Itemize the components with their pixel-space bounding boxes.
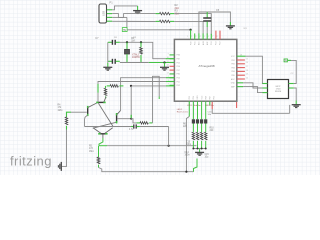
resistor R5: [97, 146, 100, 168]
label R4: [58, 105, 63, 112]
crystal Y1: [124, 42, 129, 62]
svg-text:2: 2: [191, 36, 192, 38]
IC bottom pin labels: [189, 95, 216, 100]
svg-text:6: 6: [208, 36, 209, 38]
pin numbers left column: [167, 53, 169, 85]
regulator right pins: [289, 84, 294, 89]
svg-text:PC2: PC2: [220, 42, 222, 46]
svg-text:5V: 5V: [284, 61, 287, 63]
resistor R7: [107, 85, 124, 88]
svg-text:28: 28: [240, 54, 242, 56]
IC right pins: [237, 56, 246, 86]
pin numbers top row: [187, 36, 217, 38]
wire r9 right arch: [153, 76, 160, 123]
wire D+ to IC top: [174, 21, 203, 34]
svg-text:PD7: PD7: [177, 70, 181, 72]
svg-text:19: 19: [246, 74, 248, 76]
svg-text:GND: GND: [231, 83, 236, 85]
svg-text:PB3: PB3: [231, 67, 234, 69]
label LED2: [177, 109, 188, 114]
svg-text:3: 3: [195, 36, 196, 38]
diagonal cross 2: [93, 122, 116, 128]
wire D- jog to R2: [112, 14, 155, 18]
ground GND2 stem: [229, 22, 231, 26]
wire xtal top green to IC: [166, 58, 175, 60]
capacitor C1: [108, 40, 120, 45]
wire pin3 to net: [112, 16, 127, 18]
IC bottom pin red: [211, 102, 213, 109]
ground GND2: [226, 26, 235, 29]
junction dot x168: [168, 145, 170, 147]
label R5: [89, 146, 94, 153]
junction dot: [189, 29, 191, 31]
svg-text:C14: C14: [185, 152, 190, 154]
svg-text:PD6: PD6: [177, 66, 181, 68]
svg-text:3: 3: [168, 80, 169, 82]
svg-text:1MΩ: 1MΩ: [89, 150, 94, 153]
pin 3: [107, 16, 112, 18]
capacitor C11 inline: [131, 124, 140, 128]
resistor R2: [156, 12, 175, 15]
wire net to IC: [127, 29, 191, 31]
svg-text:PC5: PC5: [194, 42, 196, 46]
transistor Q2: [117, 110, 121, 123]
svg-text:1M: 1M: [131, 39, 134, 42]
ground GND7 rotated: [58, 162, 61, 171]
wire xtal bottom green: [149, 62, 175, 64]
ground GND6: [195, 152, 204, 155]
pin 2: [107, 13, 112, 15]
led column 1: [192, 101, 195, 148]
led column 2: [196, 101, 199, 148]
svg-text:4: 4: [200, 36, 201, 38]
wire gnd left run: [62, 165, 67, 167]
net label box: [122, 28, 127, 32]
resistor R8 vertical: [104, 86, 107, 98]
wire pd2 to R7: [131, 85, 166, 87]
svg-text:18: 18: [246, 70, 248, 72]
junction dot crystal: [126, 41, 128, 43]
regulator U2 body: [268, 80, 289, 99]
svg-text:C15: C15: [205, 154, 210, 156]
svg-text:PB0: PB0: [177, 74, 180, 76]
join bar dots: [192, 148, 206, 150]
led column 3: [200, 101, 203, 148]
svg-text:15: 15: [246, 58, 248, 60]
wire ground drop: [137, 6, 139, 10]
IC top pins red: [216, 31, 220, 40]
ground GND5: [292, 105, 301, 108]
transistor Q3: [93, 128, 113, 138]
label R10: [210, 127, 215, 132]
transistor Q1: [96, 97, 106, 103]
resistor R9 horizontal: [136, 122, 152, 125]
junction dot R1: [140, 41, 142, 43]
pin 1: [107, 9, 112, 11]
svg-text:16MHz: 16MHz: [132, 56, 141, 59]
ground GND3: [103, 67, 112, 70]
wire R4 down: [66, 130, 68, 167]
wire q1 collector up: [97, 93, 99, 102]
svg-text:PB1: PB1: [231, 60, 234, 62]
svg-text:Red 5.1mm: Red 5.1mm: [177, 112, 188, 114]
junction dot gnd4: [163, 61, 165, 63]
wire gnd right: [243, 83, 267, 88]
svg-text:PB7: PB7: [177, 59, 180, 61]
wire 5v to reg: [291, 60, 296, 83]
svg-text:PD5: PD5: [214, 96, 216, 100]
wire Q4 emitter to y126: [85, 115, 88, 127]
resistor R3: [156, 20, 175, 23]
svg-text:PB2: PB2: [231, 64, 234, 66]
ground GND6 stem: [199, 149, 201, 153]
svg-text:7: 7: [212, 36, 213, 38]
wire q2 base right: [117, 118, 131, 120]
svg-text:13: 13: [167, 69, 169, 71]
IC left pin labels: [177, 55, 181, 87]
wire avcc top: [199, 12, 231, 35]
transistor Q4: [88, 103, 98, 117]
wire pd1 green end: [97, 84, 99, 93]
svg-text:3302E: 3302E: [275, 91, 282, 93]
svg-text:10: 10: [167, 57, 169, 59]
svg-text:1: 1: [187, 36, 188, 38]
svg-text:PC3: PC3: [216, 42, 218, 46]
green pin q2base net: [130, 115, 132, 118]
svg-text:PB7: PB7: [210, 96, 212, 99]
wire vbus to ground: [112, 6, 137, 10]
label C15: [205, 154, 210, 159]
svg-text:PB5: PB5: [231, 75, 234, 77]
svg-text:26: 26: [246, 77, 248, 79]
led column 4: [204, 101, 207, 148]
svg-text:fritzing: fritzing: [10, 154, 52, 169]
IC bottom pins: [189, 101, 210, 105]
wire q3 right long: [99, 145, 107, 147]
wire vcc right: [246, 56, 268, 83]
net label 5V: [284, 59, 291, 63]
svg-text:PD3: PD3: [189, 96, 191, 100]
led join bar: [193, 148, 205, 150]
svg-text:5V: 5V: [123, 29, 126, 32]
svg-text:PC6: PC6: [190, 42, 192, 46]
ground GND5 stem: [295, 101, 297, 105]
svg-text:9: 9: [168, 53, 169, 55]
resistor R1: [140, 42, 143, 62]
svg-text:PC4: PC4: [211, 42, 213, 46]
label C16: [208, 112, 213, 117]
connector P1 body: [99, 4, 107, 23]
IC top pins green: [191, 30, 212, 40]
wire r9 left: [131, 119, 136, 123]
IC right pin labels: [231, 56, 236, 88]
junction dot x131: [130, 85, 132, 87]
wire x168 vertical: [168, 127, 170, 146]
svg-text:LED4 Re: LED4 Re: [205, 105, 215, 107]
junction dot q2base: [130, 118, 132, 120]
svg-text:1MΩ: 1MΩ: [58, 109, 63, 112]
svg-text:PB6: PB6: [177, 55, 180, 57]
resistor R4: [65, 117, 68, 130]
wire aref right: [243, 87, 267, 93]
wire R4 to Q4 base: [71, 111, 87, 113]
svg-text:ATmega168: ATmega168: [198, 64, 214, 68]
wire vertical to net label: [126, 17, 128, 27]
svg-text:P1: P1: [110, 0, 114, 4]
wire pin1 long down: [188, 106, 190, 117]
wire xtal bottom: [120, 62, 149, 64]
IC corner pin red: [236, 102, 238, 108]
svg-text:PB4: PB4: [231, 71, 234, 73]
diagonal cross 1: [98, 103, 113, 126]
label C14: [185, 152, 191, 157]
capacitor C5: [203, 12, 211, 35]
svg-text:USB: USB: [103, 11, 106, 16]
IC top pin labels: [190, 40, 221, 45]
svg-text:4: 4: [168, 84, 169, 86]
ground GND1: [133, 11, 142, 14]
wire caps left join: [107, 42, 109, 63]
svg-text:12: 12: [167, 65, 169, 67]
wire D+ to R3: [112, 20, 155, 22]
svg-text:100n: 100n: [186, 144, 192, 146]
svg-text:PD4: PD4: [193, 96, 195, 100]
svg-text:100n: 100n: [185, 155, 191, 157]
wire R4 top bend: [67, 112, 72, 117]
wire xtal top: [120, 42, 166, 58]
pin 4: [107, 20, 112, 22]
wire r5 bottom long: [99, 168, 194, 172]
svg-text:PD2: PD2: [177, 85, 181, 87]
label C10: [186, 142, 192, 147]
svg-text:8: 8: [217, 36, 218, 38]
wire long right y113: [212, 109, 290, 113]
IC left pins: [170, 55, 175, 85]
svg-text:PD0: PD0: [177, 78, 181, 80]
junction dot bottomleft: [185, 171, 187, 173]
svg-text:5: 5: [204, 36, 205, 38]
svg-text:17: 17: [246, 66, 248, 68]
svg-text:AGN: AGN: [202, 40, 205, 45]
wire reg gnd: [294, 88, 296, 101]
regulator left pins: [262, 84, 267, 93]
IC U1 body: [174, 39, 236, 101]
pin numbers right column: [240, 54, 248, 79]
wire x131 down: [130, 86, 132, 119]
wire y113 up: [289, 105, 291, 113]
wire q3 base green: [99, 138, 103, 146]
svg-text:PD5: PD5: [177, 62, 181, 64]
ground GND4: [160, 67, 169, 70]
wire pd1 to x98: [98, 82, 166, 85]
wire D+ continue: [127, 20, 156, 22]
svg-text:11: 11: [167, 61, 169, 63]
label R6: [183, 124, 188, 129]
svg-text:GND: GND: [197, 95, 199, 100]
capacitor C2: [108, 59, 120, 64]
svg-text:2: 2: [168, 76, 169, 78]
svg-text:14: 14: [167, 72, 169, 74]
svg-text:R10: R10: [210, 127, 215, 129]
svg-text:PB6: PB6: [205, 96, 207, 99]
ground GND3 stem: [107, 63, 109, 67]
wire bottom right up green: [194, 159, 198, 172]
svg-text:PD1: PD1: [177, 81, 181, 83]
wire D- to IC top: [174, 14, 211, 35]
wire pd0 to x120: [121, 78, 166, 111]
wire long y126: [85, 126, 132, 128]
ground GND4 stem: [164, 63, 166, 67]
svg-text:16: 16: [246, 62, 248, 64]
